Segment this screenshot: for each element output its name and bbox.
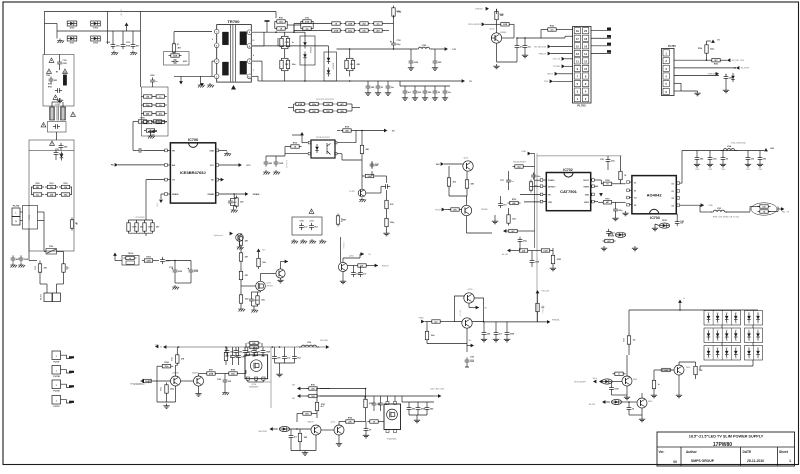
svg-text:68K: 68K xyxy=(357,64,361,66)
svg-text:DRAIN: DRAIN xyxy=(208,193,215,196)
svg-text:D7: D7 xyxy=(757,330,759,332)
svg-text:VS: VS xyxy=(392,130,395,132)
svg-text:LDRV: LDRV xyxy=(584,202,590,204)
resistor R770 top xyxy=(330,22,343,26)
capacitor C706 xyxy=(46,75,57,84)
wire fb arrow xyxy=(111,163,165,167)
aux box xyxy=(164,52,190,66)
svg-text:D400: D400 xyxy=(633,378,637,381)
svg-text:4K7: 4K7 xyxy=(136,45,139,48)
node SPS-ON/OFF bl xyxy=(130,383,142,385)
IC700 right pin 5 xyxy=(216,193,219,196)
resistor R745 xyxy=(710,59,723,66)
diode D709 xyxy=(148,130,157,137)
svg-text:1N: 1N xyxy=(726,323,728,325)
svg-text:GND: GND xyxy=(157,202,159,207)
warn C730 xyxy=(309,209,314,214)
svg-text:IC702: IC702 xyxy=(563,168,573,172)
capacitor C772 bus2 xyxy=(282,347,290,363)
svg-text:10n: 10n xyxy=(298,111,301,113)
svg-text:2SD400: 2SD400 xyxy=(192,372,199,375)
inductor L705 xyxy=(711,208,727,212)
wire q706 collector xyxy=(343,258,360,262)
svg-text:817A TLP621: 817A TLP621 xyxy=(316,136,330,139)
IC703 left pin 2 xyxy=(627,189,632,192)
svg-text:D7: D7 xyxy=(708,330,710,332)
svg-text:68K: 68K xyxy=(471,184,475,186)
svg-text:47K: 47K xyxy=(245,240,249,243)
svg-text:CS: CS xyxy=(172,180,175,182)
svg-text:10: 10 xyxy=(584,67,587,71)
capacitor C701 xyxy=(54,150,64,160)
svg-text:BL-DRV: BL-DRV xyxy=(460,309,462,316)
inductor L706 xyxy=(299,342,319,347)
resistor R723 xyxy=(143,221,153,234)
resistor R746 xyxy=(447,166,456,189)
svg-text:GND: GND xyxy=(709,205,714,207)
capacitor C760 xyxy=(518,237,528,244)
wire q701 base xyxy=(502,24,514,38)
svg-text:1: 1 xyxy=(577,97,579,101)
capacitor C705 xyxy=(55,88,62,93)
connector PL707 xyxy=(52,351,74,364)
svg-text:AC-DET: AC-DET xyxy=(120,8,123,16)
svg-text:BSV-DVD: BSV-DVD xyxy=(259,431,268,433)
svg-text:100n: 100n xyxy=(164,366,168,368)
transistor Q708 xyxy=(276,260,288,279)
svg-text:PL709: PL709 xyxy=(53,391,60,393)
resistor R797 xyxy=(364,396,374,422)
wire HV rail down xyxy=(140,12,142,88)
svg-text:C744: C744 xyxy=(695,168,699,171)
svg-text:C709: C709 xyxy=(106,42,110,44)
svg-text:Q707: Q707 xyxy=(267,283,271,285)
capacitor C774 xyxy=(372,396,382,411)
svg-text:DRAIN: DRAIN xyxy=(253,193,260,196)
arrow BSV_DVD xyxy=(259,427,278,433)
svg-text:100n: 100n xyxy=(713,159,717,161)
svg-text:470R: 470R xyxy=(126,45,131,48)
svg-text:2K2: 2K2 xyxy=(517,166,520,168)
resistor R782 bottom xyxy=(358,29,371,33)
capacitor C748 xyxy=(351,266,361,278)
resistor R744 xyxy=(698,43,715,56)
capacitor C700 xyxy=(50,141,68,151)
resistor R791b xyxy=(308,109,321,113)
svg-text:1N: 1N xyxy=(757,358,759,360)
svg-text:STB-5V: STB-5V xyxy=(475,9,483,11)
op-amp IC703 label xyxy=(650,216,660,220)
resistor R750 xyxy=(508,199,521,205)
op-amp IC703 body xyxy=(632,176,676,214)
svg-text:S1: S1 xyxy=(634,182,636,184)
capacitor C727 xyxy=(370,161,379,168)
wire r768 xyxy=(726,207,782,213)
svg-text:100R: 100R xyxy=(62,63,67,65)
svg-text:100n: 100n xyxy=(262,262,266,264)
svg-text:10n: 10n xyxy=(391,87,394,89)
wire r777 to emitter xyxy=(427,328,467,352)
wire pl705 pin5n6 xyxy=(674,83,698,91)
svg-text:6: 6 xyxy=(249,61,250,63)
ground zd703 xyxy=(652,224,660,231)
svg-text:S1: S1 xyxy=(634,191,636,193)
svg-text:D7: D7 xyxy=(717,313,719,315)
svg-text:D1: D1 xyxy=(672,191,674,193)
ground c742 xyxy=(612,216,618,221)
resistor R783 bottom xyxy=(372,29,385,33)
svg-text:2SD400: 2SD400 xyxy=(481,208,488,211)
svg-text:330R: 330R xyxy=(146,260,151,262)
connector PL705 xyxy=(662,44,677,96)
svg-text:1: 1 xyxy=(56,371,58,373)
svg-text:1n: 1n xyxy=(292,42,294,44)
capacitor C751 xyxy=(249,291,265,308)
capacitor C766 bus xyxy=(261,347,271,356)
svg-text:100n: 100n xyxy=(431,335,435,337)
resistor R798 xyxy=(368,420,385,424)
ground bus2 caps xyxy=(275,363,295,377)
wire stby rail xyxy=(341,237,346,263)
capacitor C742 out xyxy=(720,151,729,172)
capacitor C742 xyxy=(613,202,623,216)
svg-text:PL706: PL706 xyxy=(41,293,43,300)
svg-text:4n7: 4n7 xyxy=(408,91,411,94)
wire hdrv xyxy=(594,185,598,187)
wire q720 collector xyxy=(641,393,643,398)
svg-text:D400: D400 xyxy=(686,366,690,369)
svg-text:330R: 330R xyxy=(470,361,475,363)
svg-text:R791: R791 xyxy=(311,384,315,386)
resistor R767 xyxy=(594,198,625,204)
svg-text:L706: L706 xyxy=(307,342,311,344)
resistor R802 xyxy=(652,370,659,393)
resistor R791a xyxy=(308,102,321,106)
svg-text:PS-5V: PS-5V xyxy=(435,209,441,211)
svg-text:C752: C752 xyxy=(397,40,401,42)
arrow PWM_BL out xyxy=(547,320,561,324)
node GND ic703 xyxy=(700,203,713,207)
svg-text:2: 2 xyxy=(216,76,217,78)
resistor R749 xyxy=(529,180,537,193)
capacitor C709 xyxy=(106,31,120,49)
svg-text:L1: L1 xyxy=(253,40,255,42)
svg-text:R738: R738 xyxy=(342,218,344,222)
svg-text:STB-5V: STB-5V xyxy=(382,265,389,267)
capacitor C771 bus2 xyxy=(272,347,281,363)
svg-text:10n: 10n xyxy=(50,187,53,189)
svg-text:6: 6 xyxy=(585,82,587,86)
svg-text:1M5: 1M5 xyxy=(428,92,432,94)
svg-text:D7: D7 xyxy=(726,348,728,350)
svg-text:10K: 10K xyxy=(751,159,755,161)
svg-text:C748: C748 xyxy=(758,168,762,171)
svg-text:C750: C750 xyxy=(305,18,309,20)
svg-text:D2: D2 xyxy=(672,205,674,207)
resistor R729 xyxy=(360,131,369,157)
svg-text:TL431: TL431 xyxy=(349,190,354,193)
wire q712 bottom xyxy=(157,386,176,402)
svg-text:1M5: 1M5 xyxy=(304,437,308,439)
ground chassis at bridge xyxy=(57,39,64,44)
svg-text:1: 1 xyxy=(665,51,667,55)
resistor R758 pair xyxy=(345,49,361,77)
svg-text:D7: D7 xyxy=(708,348,710,350)
capacitor C772 xyxy=(422,86,432,100)
svg-text:4n7: 4n7 xyxy=(434,320,437,323)
svg-text:R762: R762 xyxy=(63,183,67,185)
resistor R709 xyxy=(136,118,149,124)
svg-text:1N: 1N xyxy=(748,340,750,342)
zener ZD702 xyxy=(731,73,735,82)
svg-text:VCC: VCC xyxy=(246,165,251,167)
IC703 right pin 7 xyxy=(676,190,679,193)
wire ic702 pin2 xyxy=(530,185,540,187)
zener oval ZD704 xyxy=(609,231,626,237)
wire choke links xyxy=(52,98,63,107)
svg-text:R704: R704 xyxy=(146,256,150,259)
svg-text:PL700: PL700 xyxy=(13,206,20,208)
resistor R724 xyxy=(136,216,160,234)
svg-text:330R: 330R xyxy=(367,176,372,178)
wire caps rail xyxy=(108,30,141,32)
resistor R793 xyxy=(315,388,325,413)
wire zd706 q719 xyxy=(612,381,622,383)
svg-text:R745: R745 xyxy=(714,63,718,66)
svg-text:4: 4 xyxy=(585,90,587,94)
oval ZD706 xyxy=(593,378,612,384)
capacitor C710 xyxy=(121,31,131,49)
resistor R711 xyxy=(144,129,157,134)
resistor R771 top xyxy=(344,22,357,26)
wire resnet sides xyxy=(32,187,72,195)
diode D708 xyxy=(91,36,101,45)
svg-text:100n: 100n xyxy=(536,176,540,178)
resistor R751 xyxy=(275,18,288,24)
svg-text:R703: R703 xyxy=(48,87,52,89)
diode block D752 xyxy=(324,52,337,81)
wire q712 collector xyxy=(176,365,178,376)
svg-text:L750: L750 xyxy=(422,45,427,47)
resistor R803 xyxy=(613,372,626,376)
resistor R770 xyxy=(348,264,374,268)
resistor R748 xyxy=(513,165,535,169)
text STA-BL/START xyxy=(513,161,527,164)
svg-text:R760: R760 xyxy=(35,183,39,185)
svg-text:VDD: VDD xyxy=(548,202,553,204)
arrow bl on2 xyxy=(602,400,610,404)
IC702 left pin 3 xyxy=(540,193,546,196)
ground r781 xyxy=(550,266,556,271)
ground ic703 s2 xyxy=(622,211,628,216)
wire q718 base xyxy=(660,369,675,371)
ground c751 xyxy=(251,308,258,313)
capacitor C775 xyxy=(378,396,387,411)
svg-text:18: 18 xyxy=(584,37,587,41)
svg-text:6: 6 xyxy=(665,90,667,94)
svg-text:8: 8 xyxy=(253,55,254,57)
diode row D772-D777 xyxy=(704,343,763,361)
IC700 right pin 8 xyxy=(216,149,219,152)
node 24V in a xyxy=(292,384,308,391)
resistor network q705 base xyxy=(603,239,616,243)
resistor R792a xyxy=(322,102,335,106)
svg-text:R793: R793 xyxy=(321,404,325,406)
diode D706 xyxy=(91,21,101,30)
capacitor C754 xyxy=(408,49,419,70)
svg-text:1N: 1N xyxy=(757,340,759,342)
node KB_5V label xyxy=(547,72,572,76)
svg-text:D708: D708 xyxy=(93,43,98,45)
wire IC700 vcc pin7 xyxy=(219,164,239,166)
wire r709 to c712 xyxy=(133,122,167,151)
svg-text:R784: R784 xyxy=(164,361,168,364)
capacitor C737 xyxy=(500,171,513,190)
wire led bus gray xyxy=(166,346,326,348)
wire opto left top xyxy=(292,132,308,143)
svg-text:SPS-ON/OFF: SPS-ON/OFF xyxy=(468,24,481,26)
svg-text:Q701: Q701 xyxy=(490,29,495,31)
svg-text:470R: 470R xyxy=(334,29,339,32)
wire box to fuse xyxy=(29,251,37,261)
svg-text:2K2: 2K2 xyxy=(362,23,365,25)
wire matrix to q718 xyxy=(700,366,753,370)
wire rail to conn xyxy=(541,36,573,38)
capacitor C702 xyxy=(160,257,170,264)
wire pl705 pin3 xyxy=(674,67,734,69)
svg-text:470R: 470R xyxy=(209,372,214,375)
node 24V_LED label xyxy=(534,45,573,49)
svg-text:4K7: 4K7 xyxy=(340,103,343,106)
svg-text:1K: 1K xyxy=(438,92,441,94)
capacitor C762 xyxy=(385,81,394,95)
svg-text:SPS-ON/OFF: SPS-ON/OFF xyxy=(133,384,145,386)
svg-text:R796: R796 xyxy=(348,418,352,420)
svg-text:10K: 10K xyxy=(350,64,354,66)
wire bus junctions xyxy=(178,346,281,348)
svg-text:15: 15 xyxy=(576,44,579,48)
svg-text:100n: 100n xyxy=(611,161,615,163)
ground pl705 b xyxy=(723,88,729,93)
svg-text:FL700: FL700 xyxy=(29,215,31,220)
IC700 left pin 3 xyxy=(165,178,171,181)
svg-text:BL-E: BL-E xyxy=(593,378,598,380)
svg-text:100R: 100R xyxy=(414,62,419,64)
svg-text:D7: D7 xyxy=(717,330,719,332)
wire zd705 to q715 xyxy=(290,428,311,430)
svg-text:PL708: PL708 xyxy=(53,376,60,378)
wire HV to transformer xyxy=(141,12,277,19)
gate mark xyxy=(599,193,603,197)
wire opto right top xyxy=(337,131,356,143)
svg-text:13: 13 xyxy=(576,52,579,56)
svg-text:D7: D7 xyxy=(726,330,728,332)
svg-text:47K: 47K xyxy=(245,274,249,277)
resistor R713 xyxy=(154,95,167,99)
wire q713 base xyxy=(181,380,194,382)
svg-text:1K: 1K xyxy=(726,159,729,161)
arrow STB_BL xyxy=(374,264,389,268)
svg-text:R790: R790 xyxy=(397,11,401,13)
svg-text:IC703: IC703 xyxy=(650,216,660,220)
arrow to drain xyxy=(174,76,212,84)
svg-text:Ver.: Ver. xyxy=(659,450,665,454)
resistor R791 xyxy=(307,384,331,390)
svg-text:100n: 100n xyxy=(292,64,296,66)
arrow sps label xyxy=(133,379,145,386)
wire matrix top rail xyxy=(629,309,758,311)
box X-cap section xyxy=(43,55,74,107)
transistor Q718 xyxy=(674,365,690,375)
capacitor C756 xyxy=(493,322,502,342)
svg-text:12V0: 12V0 xyxy=(544,81,548,83)
svg-text:TCV-BO: TCV-BO xyxy=(553,66,561,68)
svg-text:D7: D7 xyxy=(717,348,719,350)
arrow GN_LED xyxy=(536,290,550,293)
svg-text:R751: R751 xyxy=(279,18,283,20)
connector PL700 xyxy=(12,206,20,226)
svg-text:1M5: 1M5 xyxy=(64,194,68,196)
svg-text:9: 9 xyxy=(249,46,250,48)
svg-text:L705: L705 xyxy=(717,208,721,210)
wire to main box xyxy=(56,132,58,140)
node 12V0 label xyxy=(544,79,573,83)
svg-text:18.5"-21.5"LED TV SLIM POWER S: 18.5"-21.5"LED TV SLIM POWER SUPPLY xyxy=(689,434,764,438)
svg-text:14: 14 xyxy=(584,52,587,56)
resistor R774 xyxy=(239,282,248,306)
svg-text:2K2: 2K2 xyxy=(418,92,421,94)
svg-text:PWM-BL: PWM-BL xyxy=(552,320,561,322)
svg-text:A: A xyxy=(684,297,686,300)
arrow sps xyxy=(482,22,485,26)
resistor R771 xyxy=(239,233,248,247)
svg-text:PWR-5V: PWR-5V xyxy=(539,54,547,56)
capacitor C745 xyxy=(606,229,614,236)
node PWM in xyxy=(419,317,430,323)
svg-text:330R: 330R xyxy=(173,55,178,57)
MOSFET Q707 xyxy=(256,281,273,291)
wire snubber2 xyxy=(293,22,313,34)
svg-text:TH700: TH700 xyxy=(128,253,133,255)
svg-text:1M5: 1M5 xyxy=(430,409,434,411)
wire bulk gnd xyxy=(172,275,191,290)
svg-text:C703: C703 xyxy=(63,60,67,62)
resistor R800 xyxy=(660,368,673,372)
resistor R790a xyxy=(294,102,307,106)
svg-text:5: 5 xyxy=(577,82,579,86)
wire aux to pin xyxy=(174,32,212,44)
resistor R761 xyxy=(45,183,58,189)
svg-text:1N: 1N xyxy=(735,323,737,325)
IC702 left pin 4 xyxy=(540,200,546,203)
svg-text:10n: 10n xyxy=(159,105,162,107)
warn C705 xyxy=(53,95,63,103)
svg-text:Q703: Q703 xyxy=(464,158,469,160)
svg-text:1N: 1N xyxy=(748,323,750,325)
svg-text:630V: 630V xyxy=(150,75,155,77)
svg-text:3: 3 xyxy=(577,90,579,94)
svg-text:m5V_3V: m5V_3V xyxy=(553,59,561,61)
svg-text:19: 19 xyxy=(576,29,579,33)
svg-text:4K7: 4K7 xyxy=(511,230,514,233)
svg-text:PHADJ: PHADJ xyxy=(548,179,554,182)
diode D707 xyxy=(67,36,77,45)
resistor R784 xyxy=(157,361,173,389)
svg-text:PL705: PL705 xyxy=(668,44,676,48)
svg-text:FQD5N20L: FQD5N20L xyxy=(387,439,398,441)
svg-text:OPTO-FB: OPTO-FB xyxy=(287,159,289,168)
svg-text:D2: D2 xyxy=(672,198,674,200)
